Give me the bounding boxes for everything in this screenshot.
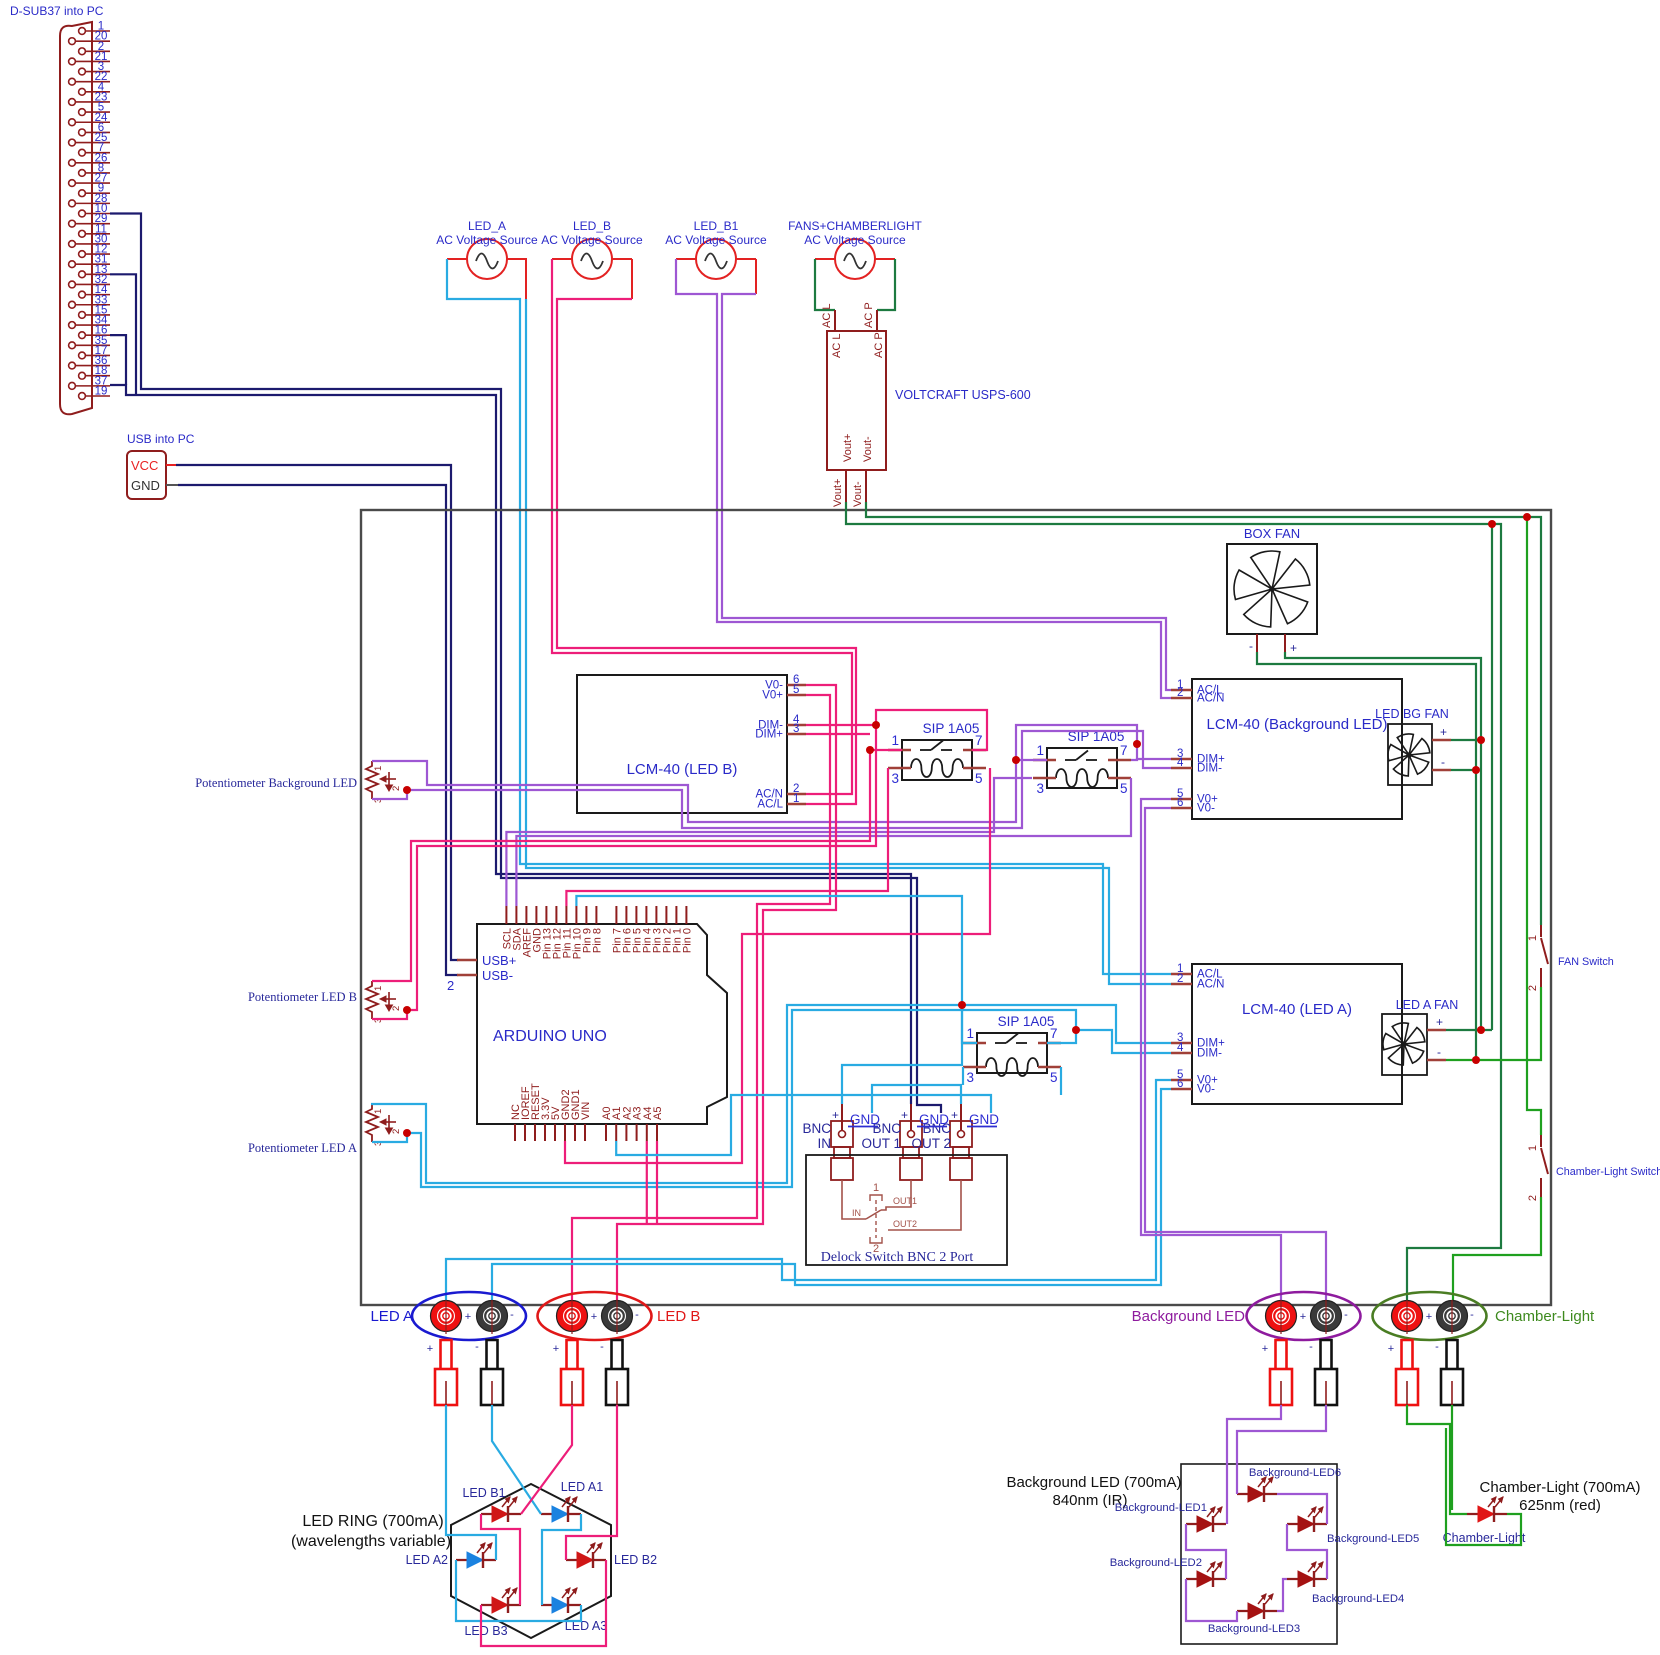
svg-text:USB into PC: USB into PC xyxy=(127,432,195,446)
D-SUB37 pin 15 xyxy=(79,311,86,318)
fan M1 BOX FAN xyxy=(1227,544,1317,634)
svg-text:+: + xyxy=(1440,725,1447,739)
LED Chamber-Light xyxy=(1467,1513,1507,1515)
svg-text:Background-LED1: Background-LED1 xyxy=(1115,1502,1207,1514)
wire Vout- rail to FAN switch (green) xyxy=(866,502,1541,925)
VOLTCRAFT pin AC L xyxy=(834,310,836,331)
svg-text:5: 5 xyxy=(1120,781,1128,796)
D-SUB37 pin 32 xyxy=(69,281,76,288)
banana jack LED B - xyxy=(602,1301,633,1332)
wire pot BG terminal 1 to SIP2 area (violet) xyxy=(372,725,1137,822)
wire LED_B1 source left to LCM-40 BG AC/L (violet) xyxy=(676,259,1171,698)
wire LED B2 to LED B - plug (pink) xyxy=(566,1405,617,1560)
plug Chamber-Light + (red) xyxy=(1402,1340,1413,1369)
svg-text:+: + xyxy=(553,1343,559,1355)
svg-text:AC L: AC L xyxy=(831,334,843,358)
SIP 1A05 pin 3 xyxy=(1033,777,1056,780)
LCM-40 LED B pin 3 DIM+ xyxy=(787,733,806,736)
svg-text:2: 2 xyxy=(447,978,454,993)
wire Background LED - plug to LED6 (violet) xyxy=(1237,1405,1326,1494)
Arduino pin Pin 3 xyxy=(655,906,657,924)
wire Background LED + plug to LED1 (violet) xyxy=(1227,1405,1281,1524)
LCM-40 (Background LED) pin 3 DIM+ xyxy=(1171,758,1192,761)
svg-text:2: 2 xyxy=(1527,985,1539,991)
LCM-40 (Background LED) pin 5 V0+ xyxy=(1171,798,1192,801)
LED Background-LED2 xyxy=(1186,1578,1226,1580)
connector group LED A xyxy=(412,1292,526,1340)
svg-text:LED A1: LED A1 xyxy=(561,1480,603,1494)
D-SUB37 pin 24 xyxy=(69,119,76,126)
wire Vout- branch to Chamber-Light switch (green) xyxy=(1527,517,1541,1135)
LCM-40 (LED A) pin 2 AC/N xyxy=(1171,983,1192,986)
wire Arduino A4 down (pink) xyxy=(646,1141,648,1224)
banana jack LED B + xyxy=(557,1301,588,1332)
AC source V2 LED_B xyxy=(572,239,612,279)
svg-text:+: + xyxy=(1290,641,1297,655)
Delock internal IN arm xyxy=(842,1180,866,1219)
svg-text:2: 2 xyxy=(391,1129,402,1134)
svg-text:GND: GND xyxy=(969,1112,999,1127)
svg-text:2: 2 xyxy=(1177,687,1183,699)
Arduino pin A3 xyxy=(636,1124,638,1141)
wire Arduino A1 to BNC OUT2 GND (cyan) xyxy=(616,1095,991,1155)
plug LED B + (red) xyxy=(567,1340,578,1369)
LED BG FAN pin + xyxy=(1432,739,1451,742)
svg-text:LCM-40 (LED B): LCM-40 (LED B) xyxy=(627,761,738,778)
svg-text:LED_A: LED_A xyxy=(468,219,506,233)
VOLTCRAFT pin AC P xyxy=(876,310,878,331)
LCM-40 (LED A) pin 4 DIM- xyxy=(1171,1052,1192,1055)
LED BG FAN pin - xyxy=(1432,769,1451,772)
wire LCM BG V0+ to Background LED + jack (violet) xyxy=(1141,799,1281,1303)
D-SUB37 pin 3 xyxy=(79,68,86,75)
svg-text:LCM-40 (Background LED): LCM-40 (Background LED) xyxy=(1207,716,1388,733)
SIP 1A05 pin 3 xyxy=(963,1066,986,1069)
Arduino pin Pin 8 xyxy=(595,906,597,924)
Arduino pin VIN xyxy=(584,1124,586,1141)
plug LED A - (black) xyxy=(487,1340,498,1369)
svg-text:-: - xyxy=(1309,1341,1313,1353)
svg-text:AC P: AC P xyxy=(863,302,875,328)
SIP 1A05 pin 7 xyxy=(1108,759,1131,762)
Arduino pin Pin 10 xyxy=(575,906,577,924)
svg-text:1: 1 xyxy=(966,1026,974,1041)
wire Vout+ rail (green) xyxy=(846,502,1501,1303)
wire Arduino A5 down (pink) xyxy=(656,1141,658,1224)
svg-text:1: 1 xyxy=(373,986,384,991)
svg-text:1: 1 xyxy=(1527,1145,1539,1151)
wire fan + bus (green) xyxy=(1285,652,1481,1030)
D-SUB37 pin 18 xyxy=(79,372,86,379)
svg-text:LED B1: LED B1 xyxy=(462,1486,505,1500)
LCM-40 (Background LED) pin 1 AC/L xyxy=(1171,689,1192,692)
svg-text:AC/N: AC/N xyxy=(1197,979,1224,991)
wire pot B terminal1 to DIM+ dot (pink) xyxy=(372,750,870,981)
svg-text:IN: IN xyxy=(818,1136,832,1151)
svg-text:4: 4 xyxy=(1177,757,1184,769)
svg-text:A5: A5 xyxy=(652,1107,664,1120)
svg-text:+: + xyxy=(1388,1343,1394,1355)
svg-text:+: + xyxy=(427,1343,433,1355)
connector J2 USB into PC xyxy=(127,451,166,499)
svg-text:2: 2 xyxy=(391,786,402,791)
svg-text:-: - xyxy=(510,1309,514,1321)
D-SUB37 pin 20 xyxy=(69,38,76,45)
svg-text:D-SUB37 into PC: D-SUB37 into PC xyxy=(10,4,104,18)
potentiometer Potentiometer LED A xyxy=(366,1104,378,1142)
D-SUB37 pin 7 xyxy=(79,149,86,156)
wire LED3 to LED4 (violet) xyxy=(1277,1579,1287,1611)
D-SUB37 pin 9 xyxy=(79,190,86,197)
Arduino pin A0 xyxy=(605,1124,607,1141)
LED A2 xyxy=(456,1559,496,1561)
svg-text:1: 1 xyxy=(1527,935,1539,941)
Arduino pin Pin 11 xyxy=(565,906,567,924)
LCM-40 LED B pin 1 AC/L xyxy=(787,803,806,806)
connector group Background LED xyxy=(1247,1292,1361,1340)
D-SUB37 pin 27 xyxy=(69,180,76,187)
svg-text:LED BG FAN: LED BG FAN xyxy=(1375,707,1449,721)
svg-text:4: 4 xyxy=(1177,1042,1184,1054)
svg-text:1: 1 xyxy=(373,1109,384,1114)
D-SUB37 pin 13 xyxy=(79,271,86,278)
D-SUB37 pin 10 xyxy=(79,210,86,217)
D-SUB37 pin 11 xyxy=(79,230,86,237)
svg-text:LED_B1: LED_B1 xyxy=(694,219,739,233)
wire USB GND to Arduino USB- (navy) xyxy=(166,484,178,486)
svg-text:5: 5 xyxy=(1050,1070,1058,1085)
svg-text:LED_B: LED_B xyxy=(573,219,611,233)
Arduino pin GND2 xyxy=(564,1124,566,1141)
svg-text:Vout+: Vout+ xyxy=(832,479,844,507)
wire D-SUB pin 16 down (navy) xyxy=(110,335,126,385)
wire LCM A V0- to LED A - jack (cyan) xyxy=(492,1089,1171,1303)
D-SUB37 pin 22 xyxy=(69,78,76,85)
wire FANS source left to VOLTCRAFT AC L (green) xyxy=(815,259,835,310)
svg-text:3: 3 xyxy=(966,1070,974,1085)
SIP 1A05 pin 1 xyxy=(888,749,911,752)
Arduino pin Pin 0 xyxy=(685,906,687,924)
svg-text:OUT1: OUT1 xyxy=(893,1196,917,1206)
Arduino pin GND xyxy=(535,906,537,924)
wire Chamber-Light - plug down (green) xyxy=(1451,1405,1453,1510)
svg-text:DIM-: DIM- xyxy=(1197,1048,1222,1060)
AC source V4 FANS+CHAMBERLIGHT xyxy=(835,239,875,279)
wire LED5 to LED6 (violet) xyxy=(1277,1494,1327,1524)
svg-text:1: 1 xyxy=(1036,743,1044,758)
svg-text:-: - xyxy=(1344,1309,1348,1321)
svg-text:GND: GND xyxy=(131,478,160,493)
wire D-SUB pin 10 to BNC OUT1 GND (navy) xyxy=(110,214,941,1114)
svg-text:7: 7 xyxy=(1120,743,1128,758)
wire LCM A V0+ to LED A + jack (cyan) xyxy=(446,1080,1171,1303)
D-SUB37 pin 29 xyxy=(69,220,76,227)
Arduino pin Pin 5 xyxy=(635,906,637,924)
Background LED box outline xyxy=(1181,1464,1337,1644)
svg-text:LED RING (700mA): LED RING (700mA) xyxy=(302,1513,443,1530)
svg-text:LCM-40 (LED A): LCM-40 (LED A) xyxy=(1242,1001,1352,1018)
svg-text:LED A2: LED A2 xyxy=(406,1553,448,1567)
wire SIP2 pin5 to Arduino SDA (violet) xyxy=(516,778,1131,906)
LED B3 xyxy=(481,1604,521,1606)
svg-text:AC P: AC P xyxy=(873,332,885,358)
LCM-40 LED B pin 5 V0+ xyxy=(787,694,806,697)
svg-text:V0-: V0- xyxy=(1197,803,1215,815)
wire LED A + plug to LED A2 (cyan) xyxy=(446,1405,496,1560)
SIP 1A05 pin 5 xyxy=(963,767,986,770)
svg-text:Delock Switch BNC 2 Port: Delock Switch BNC 2 Port xyxy=(821,1250,974,1265)
LED Background-LED3 xyxy=(1237,1610,1277,1612)
AC source V3 LED_B1 xyxy=(696,239,736,279)
D-SUB37 pin 5 xyxy=(79,109,86,116)
D-SUB37 pin 31 xyxy=(69,261,76,268)
connector group Chamber-Light xyxy=(1373,1292,1487,1340)
svg-text:BNC: BNC xyxy=(802,1121,831,1136)
LED B1 xyxy=(481,1513,521,1515)
LED A FAN pin - xyxy=(1427,1059,1446,1062)
VOLTCRAFT pin Vout- xyxy=(865,470,867,502)
enclosure box outline xyxy=(361,510,1551,1305)
D-SUB37 pin 35 xyxy=(69,342,76,349)
svg-text:Potentiometer LED B: Potentiometer LED B xyxy=(248,990,357,1004)
svg-text:6: 6 xyxy=(1177,797,1183,809)
LED ring hexagon outline xyxy=(451,1484,611,1638)
connector BNC OUT 1 xyxy=(900,1121,922,1147)
svg-text:FANS+CHAMBERLIGHT: FANS+CHAMBERLIGHT xyxy=(788,219,922,233)
wire USB VCC to Arduino USB+ (navy) xyxy=(166,464,176,466)
svg-text:Potentiometer Background LED: Potentiometer Background LED xyxy=(195,776,357,790)
svg-text:7: 7 xyxy=(975,733,983,748)
svg-text:Background-LED3: Background-LED3 xyxy=(1208,1623,1300,1635)
svg-text:AC Voltage Source: AC Voltage Source xyxy=(436,233,538,247)
wire pot A wiper to LCM A DIM- (cyan) xyxy=(407,1010,1076,1187)
D-SUB37 pin 26 xyxy=(69,159,76,166)
SIP 1A05 pin 5 xyxy=(1038,1066,1061,1069)
banana jack Background LED - xyxy=(1311,1301,1342,1332)
svg-text:IN: IN xyxy=(852,1208,861,1218)
svg-text:1: 1 xyxy=(891,733,899,748)
wire pot A terminal1 to cyan node (cyan) xyxy=(371,1005,1171,1183)
D-SUB37 pin 34 xyxy=(69,322,76,329)
Arduino pin AREF xyxy=(525,906,527,924)
svg-text:USB+: USB+ xyxy=(482,953,516,968)
wire Chamber-Light + plug to LED anode (green) xyxy=(1407,1405,1467,1514)
D-SUB37 pin 28 xyxy=(69,200,76,207)
plug Background LED + (red) xyxy=(1276,1340,1287,1369)
svg-text:3: 3 xyxy=(1036,781,1044,796)
svg-text:Vout-: Vout- xyxy=(862,436,874,462)
junction dots xyxy=(872,721,880,729)
svg-text:2: 2 xyxy=(1527,1195,1539,1201)
LCM-40 (LED A) pin 1 AC/L xyxy=(1171,973,1192,976)
svg-text:1: 1 xyxy=(373,766,384,771)
svg-text:VOLTCRAFT USPS-600: VOLTCRAFT USPS-600 xyxy=(895,388,1031,402)
wire LED4 to LED5 (violet) xyxy=(1287,1524,1327,1579)
plug LED A + (red) xyxy=(441,1340,452,1369)
driver U2 LCM-40 (LED B) xyxy=(577,675,787,813)
D-SUB37 pin 2 xyxy=(79,48,86,55)
svg-text:GND: GND xyxy=(919,1112,949,1127)
svg-text:Background LED (700mA): Background LED (700mA) xyxy=(1006,1474,1181,1491)
svg-text:6: 6 xyxy=(1177,1078,1183,1090)
svg-text:USB-: USB- xyxy=(482,968,513,983)
LCM-40 (LED A) pin 3 DIM+ xyxy=(1171,1042,1192,1045)
D-SUB37 pin 6 xyxy=(79,129,86,136)
banana jack LED A - xyxy=(477,1301,508,1332)
LCM-40 LED B pin 2 AC/N xyxy=(787,793,806,796)
svg-text:Potentiometer LED A: Potentiometer LED A xyxy=(248,1141,357,1155)
fan M2 LED BG FAN xyxy=(1388,724,1432,785)
D-SUB37 pin 14 xyxy=(79,291,86,298)
Delock internal OUT2 contact xyxy=(888,1180,961,1230)
svg-text:DIM-: DIM- xyxy=(1197,763,1222,775)
D-SUB37 pin 25 xyxy=(69,139,76,146)
wire Arduino Pin 10 to BNC IN + node (cyan) xyxy=(576,896,962,1104)
svg-text:LED B3: LED B3 xyxy=(464,1624,507,1638)
LED B2 xyxy=(566,1559,606,1561)
svg-text:VCC: VCC xyxy=(131,458,158,473)
wire LED_B1 source right to LCM-40 BG AC/N (violet) xyxy=(755,259,757,294)
D-SUB37 pin 30 xyxy=(69,241,76,248)
Arduino pin SCL xyxy=(505,906,507,924)
svg-text:+: + xyxy=(901,1108,908,1122)
LED Background-LED4 xyxy=(1287,1578,1327,1580)
wire Chamber-Light LED cathode loop (green) xyxy=(1446,1428,1521,1545)
Arduino pin Pin 7 xyxy=(615,906,617,924)
svg-text:OUT 2: OUT 2 xyxy=(911,1136,951,1151)
LCM-40 (Background LED) pin 4 DIM- xyxy=(1171,767,1192,770)
wire LED2 to LED3 (violet) xyxy=(1186,1579,1237,1621)
LCM-40 (LED A) pin 5 V0+ xyxy=(1171,1079,1192,1082)
potentiometer Potentiometer LED B xyxy=(366,981,378,1019)
D-SUB37 pin 36 xyxy=(69,362,76,369)
wire SIP3 pin7 to DIM- dot (cyan) xyxy=(1047,1030,1076,1043)
banana jack Background LED + xyxy=(1266,1301,1297,1332)
Arduino pin NC xyxy=(514,1124,516,1141)
LED A FAN pin + xyxy=(1427,1029,1446,1032)
banana jack Chamber-Light + xyxy=(1392,1301,1423,1332)
wire LED_A source left to LCM-40 LED A AC/L (cyan) xyxy=(447,259,1171,974)
svg-text:1: 1 xyxy=(793,793,799,805)
wire LCM LED B DIM+ via SIP1 pin1 (pink) xyxy=(806,733,870,735)
svg-text:AC Voltage Source: AC Voltage Source xyxy=(541,233,643,247)
svg-text:V0+: V0+ xyxy=(762,690,783,702)
wire LED A3 to LED A2 (cyan) xyxy=(456,1560,581,1621)
Arduino pin SDA xyxy=(515,906,517,924)
svg-text:+: + xyxy=(1436,1015,1443,1029)
Delock selector dashed xyxy=(875,1200,877,1238)
Arduino pin Pin 9 xyxy=(585,906,587,924)
Arduino pin A1 xyxy=(615,1124,617,1141)
LED Background-LED6 xyxy=(1237,1493,1277,1495)
svg-text:AC Voltage Source: AC Voltage Source xyxy=(804,233,906,247)
svg-text:+: + xyxy=(1262,1343,1268,1355)
D-SUB37 pin 16 xyxy=(79,332,86,339)
wire LED BG FAN + stub join (green) xyxy=(1451,739,1481,741)
Arduino pin Pin 4 xyxy=(645,906,647,924)
svg-text:3: 3 xyxy=(891,771,899,786)
wire LCM LED B V0- to LED B - jack (pink) xyxy=(617,685,836,1303)
svg-text:Background-LED2: Background-LED2 xyxy=(1110,1557,1202,1569)
LED A3 xyxy=(541,1604,581,1606)
SIP 1A05 pin 7 xyxy=(1038,1042,1061,1045)
connector BNC IN xyxy=(831,1121,853,1147)
BOX FAN pin - xyxy=(1256,634,1258,652)
wire DIM- dot to LCM A DIM- (cyan) xyxy=(1076,1030,1171,1053)
svg-text:-: - xyxy=(475,1341,479,1353)
svg-text:Chamber-Light: Chamber-Light xyxy=(1495,1308,1595,1325)
wire SIP3 pin3 stub down (cyan) xyxy=(962,1067,964,1085)
svg-text:2: 2 xyxy=(391,1006,402,1011)
D-SUB37 pin 23 xyxy=(69,99,76,106)
wire LED_A source right to LCM-40 LED A AC/N (cyan) xyxy=(525,259,527,299)
svg-text:ARDUINO UNO: ARDUINO UNO xyxy=(493,1028,607,1045)
svg-text:+: + xyxy=(591,1311,597,1323)
wire Arduino GND2 to SIP1 pin5 (pink) xyxy=(565,768,990,1163)
wire fan - bus (green) xyxy=(1257,652,1476,1060)
svg-text:GND: GND xyxy=(850,1112,880,1127)
svg-text:Vout+: Vout+ xyxy=(842,434,854,462)
svg-text:19: 19 xyxy=(95,386,108,398)
svg-text:7: 7 xyxy=(1050,1026,1058,1041)
wire D-SUB pin 13 joins bus (navy) xyxy=(110,274,136,395)
wire LED A FAN + to rail (green) xyxy=(1446,1029,1492,1031)
connector BNC OUT 2 xyxy=(950,1121,972,1147)
LED Background-LED1 xyxy=(1186,1523,1226,1525)
LED Background-LED5 xyxy=(1287,1523,1327,1525)
Arduino pin 3.3V xyxy=(544,1124,546,1141)
wire Arduino Pin 11 to SIP1 pin3 (pink) xyxy=(566,768,888,906)
svg-text:LED A: LED A xyxy=(370,1308,413,1325)
wire Chamber-Light switch pin2 to - jack (green) xyxy=(1453,1197,1541,1303)
svg-text:Background LED: Background LED xyxy=(1132,1308,1246,1325)
svg-text:LED B2: LED B2 xyxy=(614,1553,657,1567)
wire LED B3 to LED B2 (pink) xyxy=(481,1560,606,1646)
wire Potentiometer Background LED bottom (3) to wiper tap xyxy=(372,790,407,799)
banana jack Chamber-Light - xyxy=(1437,1301,1468,1332)
relay K3 SIP 1A05 (LED A) xyxy=(977,1033,1047,1073)
driver U4 LCM-40 (LED A) xyxy=(1192,964,1402,1104)
plug LED B - (black) xyxy=(612,1340,623,1369)
wire SIP2 pin3 to Arduino SCL (violet) xyxy=(506,778,1032,906)
svg-text:2: 2 xyxy=(873,1243,879,1255)
LED A1 xyxy=(541,1513,581,1515)
svg-text:AC/N: AC/N xyxy=(1197,693,1224,705)
svg-text:LED A FAN: LED A FAN xyxy=(1396,998,1459,1012)
wire Potentiometer LED A bottom (3) to wiper tap xyxy=(372,1133,407,1142)
svg-text:Chamber-Light: Chamber-Light xyxy=(1443,1531,1526,1545)
svg-text:5: 5 xyxy=(793,684,799,696)
wire LED A1 to LED A3 (cyan) xyxy=(542,1514,581,1605)
svg-text:+: + xyxy=(465,1311,471,1323)
svg-text:-: - xyxy=(600,1341,604,1353)
wire LED B1 to LED B3 (pink) xyxy=(481,1514,520,1605)
wire pot B wiper to DIM- dot (pink) xyxy=(407,725,876,1010)
switch FAN Switch xyxy=(1540,925,1542,937)
D-SUB37 pin 21 xyxy=(69,58,76,65)
Arduino pin USB+ xyxy=(457,959,477,962)
SIP 1A05 pin 1 xyxy=(963,1042,986,1045)
driver U3 LCM-40 (Background LED) xyxy=(1192,679,1402,819)
wire LED_B source left to LCM-40 LED B AC/N (pink) xyxy=(552,259,852,794)
svg-text:AC L: AC L xyxy=(821,304,833,328)
svg-text:2: 2 xyxy=(1177,973,1183,985)
banana jack LED A + xyxy=(431,1301,462,1332)
VOLTCRAFT pin Vout+ xyxy=(845,470,847,502)
board U1 ARDUINO UNO outline xyxy=(477,924,727,1124)
wire LED B + plug diagonal to LED B1 (pink) xyxy=(521,1405,572,1514)
svg-text:OUT 1: OUT 1 xyxy=(861,1136,901,1151)
